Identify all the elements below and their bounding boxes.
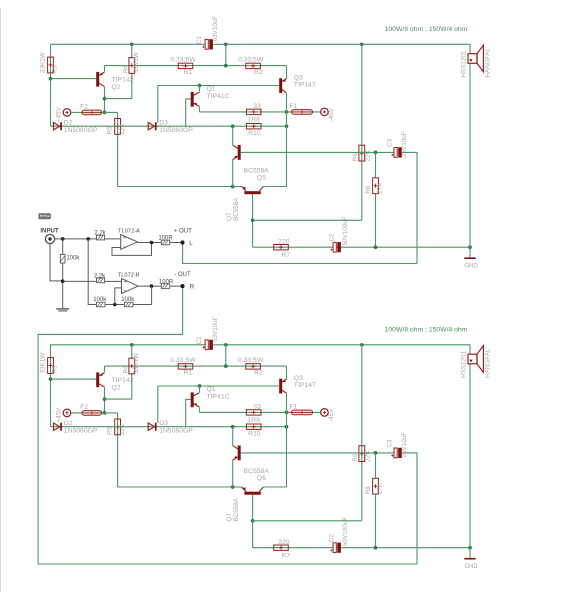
node R8 top junction L channel bbox=[374, 151, 378, 155]
wire feedback row E R channel bbox=[253, 547, 470, 549]
node Q5e-Q7 junction R channel bbox=[231, 485, 235, 489]
wire Q2 base R channel bbox=[51, 378, 97, 380]
svg-text:25V10uF: 25V10uF bbox=[401, 131, 408, 157]
svg-text:25V10uF: 25V10uF bbox=[401, 432, 408, 458]
svg-text:22K: 22K bbox=[365, 149, 372, 161]
transistor Q3 TIP147 R channel bbox=[279, 379, 282, 394]
node input junction 2 bbox=[86, 237, 90, 241]
transistor Q5 BC558A R channel bbox=[238, 446, 241, 461]
node R1-R2 junction L channel bbox=[224, 64, 228, 68]
node R3-base junction R channel bbox=[49, 377, 53, 381]
wire row B bbox=[63, 280, 122, 282]
resistor R10 L channel bbox=[246, 124, 261, 129]
node rail-C1 junction R channel bbox=[224, 343, 228, 347]
wire R5 branch R channel bbox=[117, 413, 119, 487]
node rail-R6 junction L channel bbox=[360, 42, 364, 46]
wire Q2 collector L channel bbox=[104, 66, 106, 72]
svg-text:TL072-A: TL072-A bbox=[118, 228, 140, 234]
wire Q2 collector R channel bbox=[104, 366, 106, 372]
transistor Q2 TIP142 R channel bbox=[96, 372, 99, 387]
svg-text:C3: C3 bbox=[387, 439, 394, 448]
svg-text:33K1W: 33K1W bbox=[39, 52, 46, 73]
svg-text:33K1W: 33K1W bbox=[133, 52, 140, 73]
svg-text:2.2k: 2.2k bbox=[94, 230, 106, 236]
svg-text:R5: R5 bbox=[106, 126, 113, 135]
wire Q3 top R channel bbox=[286, 366, 288, 379]
node ground junction bbox=[61, 279, 65, 283]
svg-text:+45V: +45V bbox=[55, 106, 62, 122]
transistor Q7 BC558A L channel bbox=[244, 191, 260, 194]
svg-text:R2: R2 bbox=[254, 69, 263, 76]
fuse F1 L channel bbox=[287, 111, 321, 113]
ground input GND bbox=[56, 308, 69, 310]
wire left branch R3/D2 L channel bbox=[50, 44, 52, 126]
resistor 2.2k (A) bbox=[97, 235, 105, 240]
svg-text:C1: C1 bbox=[196, 336, 203, 345]
node Q2e-F2 junction L channel bbox=[103, 111, 107, 115]
node speaker return junction L channel bbox=[468, 245, 472, 249]
diode D2 1N5060GP L channel bbox=[54, 123, 60, 130]
wire B output row bbox=[138, 285, 182, 287]
node 33-F1 junction R channel bbox=[285, 411, 289, 415]
transistor Q1 TIP41C L channel bbox=[191, 92, 194, 107]
wire Q5 collector R channel bbox=[232, 427, 234, 446]
svg-text:50V100uF: 50V100uF bbox=[342, 517, 349, 546]
svg-text:1N5060GP: 1N5060GP bbox=[64, 427, 98, 434]
resistor R4 L channel bbox=[129, 58, 135, 74]
node rail-C1 junction L channel bbox=[224, 42, 228, 46]
svg-text:100W/8 ohm ; 150W/4 ohm: 100W/8 ohm ; 150W/4 ohm bbox=[385, 26, 468, 33]
capacitor C2 L channel bbox=[333, 242, 336, 252]
svg-text:1N5060GP: 1N5060GP bbox=[159, 127, 193, 134]
terminal L bbox=[180, 240, 184, 244]
logo badge bbox=[39, 214, 51, 219]
capacitor C1 R channel bbox=[205, 340, 208, 350]
svg-text:1N5060GP: 1N5060GP bbox=[159, 427, 193, 434]
wire R5 branch L channel bbox=[117, 112, 119, 186]
svg-text:-: - bbox=[123, 243, 125, 250]
wire left branch R3/D2 R channel bbox=[50, 345, 52, 427]
wire Q5 collector L channel bbox=[232, 126, 234, 145]
svg-text:GND: GND bbox=[464, 564, 478, 570]
resistor 100k (fb) bbox=[124, 302, 133, 307]
wire Q7 base drop R channel bbox=[252, 495, 254, 548]
svg-text:R: R bbox=[190, 283, 195, 290]
resistor 100k (in) bbox=[96, 302, 105, 307]
wire R6 branch R channel bbox=[361, 345, 363, 521]
svg-text:TIP147: TIP147 bbox=[294, 82, 316, 89]
svg-text:1N5060GP: 1N5060GP bbox=[64, 127, 98, 134]
svg-text:27K: 27K bbox=[376, 182, 383, 194]
wire top supply rail L channel bbox=[51, 43, 206, 45]
op-amp U1A TL072-A bbox=[121, 234, 138, 249]
svg-text:63V10uF: 63V10uF bbox=[212, 316, 219, 342]
wire driver row C R channel bbox=[118, 486, 242, 488]
node R10 row junction R channel bbox=[285, 425, 289, 429]
svg-text:R3: R3 bbox=[52, 64, 59, 73]
wire F2 row R channel bbox=[70, 412, 117, 414]
svg-text:INPUT: INPUT bbox=[40, 228, 59, 235]
svg-text:C2: C2 bbox=[328, 533, 335, 542]
wire R6 branch L channel bbox=[361, 44, 363, 220]
svg-text:Q3: Q3 bbox=[294, 375, 303, 382]
svg-text:+45V: +45V bbox=[55, 407, 62, 423]
wire Q1 collector L channel bbox=[199, 86, 201, 92]
svg-text:0.33;5W: 0.33;5W bbox=[170, 56, 196, 63]
svg-text:HSS1201: HSS1201 bbox=[460, 351, 467, 378]
connector input jack bbox=[45, 234, 54, 243]
wire F2 row L channel bbox=[70, 111, 117, 113]
svg-text:F2: F2 bbox=[80, 104, 88, 111]
resistor R8 R channel bbox=[373, 478, 379, 494]
wire R1 R2 row L channel bbox=[105, 65, 287, 67]
wire B inverting input bbox=[115, 288, 122, 305]
wire input row B R channel bbox=[241, 452, 395, 454]
svg-text:100R: 100R bbox=[159, 279, 174, 285]
node B output junction bbox=[150, 284, 154, 288]
svg-text:Q1: Q1 bbox=[207, 386, 216, 393]
terminal R bbox=[180, 284, 184, 288]
svg-text:R7: R7 bbox=[281, 252, 290, 259]
resistor R5 R channel bbox=[115, 419, 121, 435]
svg-text:C1: C1 bbox=[196, 35, 203, 44]
fuse F1 R channel bbox=[287, 411, 321, 413]
svg-text:Q7: Q7 bbox=[226, 212, 233, 221]
capacitor C3 L channel bbox=[394, 148, 397, 158]
svg-text:D3: D3 bbox=[159, 420, 168, 427]
wire top supply rail R channel bbox=[51, 344, 206, 346]
resistor R7 220 L channel bbox=[274, 245, 289, 250]
wire Q2 emitter chain R channel bbox=[104, 387, 106, 413]
wire Q1 collector R channel bbox=[199, 386, 201, 392]
ground GND R channel bbox=[469, 548, 471, 558]
node input junction 1 bbox=[61, 237, 65, 241]
wire signal branch to inverter bbox=[88, 239, 96, 305]
capacitor C3 R channel bbox=[394, 448, 397, 458]
node R8 top junction R channel bbox=[374, 451, 378, 455]
node divider junction bbox=[113, 303, 117, 307]
wire Q2 base L channel bbox=[51, 78, 97, 80]
wire R4 top L channel bbox=[131, 44, 133, 58]
svg-text:33K1W: 33K1W bbox=[39, 353, 46, 374]
resistor R9 33 R channel bbox=[246, 410, 261, 415]
svg-text:HANGFAL: HANGFAL bbox=[485, 348, 492, 378]
svg-text:1R8: 1R8 bbox=[247, 417, 260, 424]
resistor R2 L channel bbox=[246, 63, 261, 68]
wire D2-D3 row R channel bbox=[51, 426, 287, 428]
svg-text:63V10uF: 63V10uF bbox=[212, 16, 219, 42]
svg-text:R3: R3 bbox=[52, 365, 59, 374]
wire jack ground bbox=[50, 244, 63, 281]
resistor R8 L channel bbox=[373, 178, 379, 194]
fuse F2 R channel bbox=[82, 411, 102, 416]
svg-text:22K: 22K bbox=[365, 450, 372, 462]
svg-text:Q1: Q1 bbox=[207, 86, 216, 93]
svg-text:TIP142: TIP142 bbox=[112, 377, 134, 384]
svg-text:100k: 100k bbox=[66, 256, 80, 262]
svg-text:HANGFAL: HANGFAL bbox=[485, 48, 492, 78]
wire speaker feed down R channel bbox=[469, 345, 471, 548]
node Q2e-F2 junction R channel bbox=[103, 411, 107, 415]
capacitor C2 R channel bbox=[333, 543, 336, 553]
svg-text:TL072-B: TL072-B bbox=[118, 272, 140, 278]
fuse F2 L channel bbox=[82, 110, 102, 115]
wire input row bbox=[55, 238, 121, 240]
wire R1 tap L channel bbox=[225, 44, 227, 65]
wire Q3 top L channel bbox=[286, 66, 288, 79]
supply +45V L channel bbox=[63, 109, 71, 117]
wire B feedback up bbox=[151, 286, 153, 304]
node R8 bottom junction L channel bbox=[374, 245, 378, 249]
transistor Q7 BC558A R channel bbox=[244, 492, 260, 495]
wire R1 tap R channel bbox=[225, 345, 227, 366]
svg-text:R10: R10 bbox=[248, 431, 261, 438]
wire 100k shunt branch bbox=[62, 239, 64, 309]
svg-text:R8: R8 bbox=[365, 185, 372, 194]
node Q5e-Q7 junction L channel bbox=[231, 185, 235, 189]
node R8 bottom junction R channel bbox=[374, 546, 378, 550]
resistor R3 R channel bbox=[48, 358, 54, 374]
wire D2-D3 row L channel bbox=[51, 125, 287, 127]
resistor 2.2k (B) bbox=[97, 278, 105, 283]
wire Q1 base drop L channel bbox=[186, 99, 191, 126]
wire C3 to output loop R channel bbox=[402, 453, 417, 564]
wire Q1 emitter L channel bbox=[199, 107, 201, 112]
node speaker return junction R channel bbox=[468, 546, 472, 550]
page left edge line bbox=[0, 8, 2, 592]
resistor 100k shunt bbox=[60, 254, 65, 263]
node 33-F1 junction L channel bbox=[285, 110, 289, 114]
wire 100k divider row bbox=[96, 304, 151, 306]
wire Q5 emitter L channel bbox=[232, 159, 234, 186]
svg-text:L: L bbox=[189, 240, 193, 247]
node Q5 collector junction R channel bbox=[231, 425, 235, 429]
svg-text:-45V: -45V bbox=[328, 107, 335, 121]
svg-text:R7: R7 bbox=[281, 553, 290, 560]
transistor Q5 BC558A L channel bbox=[238, 145, 241, 160]
resistor R10 R channel bbox=[246, 424, 261, 429]
wire R8 leads L channel bbox=[375, 152, 377, 177]
wire R4 bottom L channel bbox=[105, 73, 132, 99]
diode D3 1N5060GP R channel bbox=[148, 423, 154, 430]
svg-text:F1: F1 bbox=[290, 404, 298, 411]
svg-text:33K1W: 33K1W bbox=[133, 353, 140, 374]
node Q2e-R4 junction R channel bbox=[103, 397, 107, 401]
wire R-input border R channel bbox=[38, 288, 417, 564]
wire 33 row L channel bbox=[200, 111, 287, 113]
svg-text:Q7: Q7 bbox=[226, 513, 233, 522]
resistor R1 R channel bbox=[178, 364, 193, 369]
wire A feedback bbox=[112, 243, 152, 256]
svg-text:R6: R6 bbox=[352, 453, 359, 462]
node Q7 base-R6 junction R channel bbox=[251, 519, 255, 523]
svg-text:R1: R1 bbox=[183, 69, 192, 76]
svg-text:GND: GND bbox=[464, 264, 478, 270]
resistor R5 L channel bbox=[115, 119, 121, 135]
wire R8 leads R channel bbox=[375, 453, 377, 478]
node rail-R4 junction L channel bbox=[130, 42, 134, 46]
wire D3 cathode to bias row R channel bbox=[157, 386, 159, 423]
wire Q1 base drop R channel bbox=[186, 399, 191, 426]
svg-text:D3: D3 bbox=[159, 119, 168, 126]
svg-text:R1: R1 bbox=[183, 369, 192, 376]
svg-text:D2: D2 bbox=[64, 119, 73, 126]
svg-text:33: 33 bbox=[253, 103, 261, 110]
svg-text:100R: 100R bbox=[158, 236, 173, 242]
wire speaker feed down L channel bbox=[469, 44, 471, 247]
node R10 row junction L channel bbox=[285, 124, 289, 128]
wire Q1-Q3 base row L channel bbox=[158, 85, 279, 87]
node A output junction bbox=[150, 241, 154, 245]
svg-text:-45V: -45V bbox=[328, 408, 335, 422]
wire Q7 base drop L channel bbox=[252, 194, 254, 247]
svg-text:TIP142: TIP142 bbox=[112, 77, 134, 84]
wire Q5 emitter R channel bbox=[232, 460, 234, 487]
wire Q2 emitter chain L channel bbox=[104, 87, 106, 113]
wire 33 row R channel bbox=[200, 411, 287, 413]
node Q1 collector junction L channel bbox=[198, 84, 202, 88]
node Q5 collector junction L channel bbox=[231, 124, 235, 128]
wire input row B L channel bbox=[241, 151, 395, 153]
wire Q3 bottom to driver row L channel bbox=[286, 93, 288, 187]
svg-text:R4: R4 bbox=[123, 365, 130, 374]
resistor R3 L channel bbox=[48, 57, 54, 73]
svg-text:2.2k: 2.2k bbox=[94, 273, 106, 279]
supply -45V R channel bbox=[321, 409, 329, 417]
svg-text:+: + bbox=[124, 280, 127, 286]
resistor R2 R channel bbox=[246, 364, 261, 369]
speaker HSS1201 HANGFAL R channel bbox=[468, 354, 477, 364]
svg-text:TIP147: TIP147 bbox=[294, 382, 316, 389]
wire R1 R2 row R channel bbox=[105, 365, 287, 367]
capacitor C1 L channel bbox=[205, 39, 208, 49]
svg-text:0.33;5W: 0.33;5W bbox=[238, 357, 264, 364]
svg-text:R6: R6 bbox=[352, 153, 359, 162]
svg-text:0.33;5W: 0.33;5W bbox=[170, 357, 196, 364]
svg-text:220: 220 bbox=[278, 238, 290, 245]
node rail-R6 junction R channel bbox=[360, 343, 364, 347]
resistor R6 R channel bbox=[359, 446, 365, 462]
ground GND L channel bbox=[469, 247, 471, 257]
wire C3 to output loop L channel bbox=[402, 152, 417, 263]
wire Q1-Q3 base row R channel bbox=[158, 385, 279, 387]
resistor 100R (B) bbox=[161, 284, 169, 289]
wire D3 cathode to bias row L channel bbox=[157, 86, 159, 123]
svg-text:Q5: Q5 bbox=[257, 175, 266, 182]
svg-text:BC558A: BC558A bbox=[233, 197, 240, 221]
supply -45V L channel bbox=[321, 108, 329, 116]
svg-text:1R8: 1R8 bbox=[247, 116, 260, 123]
svg-text:R5: R5 bbox=[106, 426, 113, 435]
svg-text:F1: F1 bbox=[290, 103, 298, 110]
svg-text:22K: 22K bbox=[119, 423, 126, 435]
wire R4 bottom R channel bbox=[105, 373, 132, 399]
svg-text:100k: 100k bbox=[121, 297, 135, 303]
svg-text:Q2: Q2 bbox=[112, 384, 121, 391]
svg-text:R10: R10 bbox=[248, 130, 261, 137]
resistor R6 L channel bbox=[359, 145, 365, 161]
node R1-R2 junction R channel bbox=[224, 364, 228, 368]
svg-text:100k: 100k bbox=[93, 297, 107, 303]
svg-text:+: + bbox=[123, 236, 126, 242]
svg-text:100W/8 ohm ; 150W/4 ohm: 100W/8 ohm ; 150W/4 ohm bbox=[385, 327, 468, 334]
wire R4 top R channel bbox=[131, 345, 133, 359]
speaker HSS1201 HANGFAL L channel bbox=[468, 54, 477, 64]
svg-text:27K: 27K bbox=[376, 482, 383, 494]
svg-text:Q2: Q2 bbox=[112, 84, 121, 91]
svg-text:R2: R2 bbox=[254, 369, 263, 376]
resistor R9 33 L channel bbox=[246, 109, 261, 114]
svg-text:R8: R8 bbox=[365, 486, 372, 495]
svg-text:BC558A: BC558A bbox=[244, 468, 270, 475]
svg-text:HSS1201: HSS1201 bbox=[460, 50, 467, 77]
svg-text:- OUT: - OUT bbox=[174, 272, 191, 278]
svg-text:TIP41C: TIP41C bbox=[207, 93, 230, 100]
svg-text:-: - bbox=[124, 287, 126, 294]
svg-text:R4: R4 bbox=[123, 64, 130, 73]
wire driver row C L channel bbox=[118, 186, 242, 188]
wire Q3 bottom to driver row R channel bbox=[286, 393, 288, 487]
wire A output row bbox=[137, 242, 182, 244]
resistor 100R (A) bbox=[161, 240, 169, 245]
diode D3 1N5060GP L channel bbox=[148, 123, 154, 130]
transistor Q1 TIP41C R channel bbox=[191, 392, 194, 407]
svg-text:220: 220 bbox=[278, 539, 290, 546]
transistor Q2 TIP142 L channel bbox=[96, 72, 99, 87]
node R3-base junction L channel bbox=[49, 77, 53, 81]
svg-text:+ OUT: + OUT bbox=[174, 229, 192, 235]
node Q2e-R4 junction L channel bbox=[103, 97, 107, 101]
svg-text:50V100uF: 50V100uF bbox=[342, 216, 349, 245]
wire Q1 emitter R channel bbox=[199, 408, 201, 413]
svg-text:D2: D2 bbox=[64, 420, 73, 427]
resistor R1 L channel bbox=[178, 63, 193, 68]
wire feedback row E L channel bbox=[253, 246, 470, 248]
svg-text:33: 33 bbox=[253, 403, 261, 410]
supply +45V R channel bbox=[63, 409, 71, 417]
svg-text:Q5: Q5 bbox=[257, 475, 266, 482]
wire output loop from L L channel bbox=[183, 244, 417, 264]
svg-text:BC558A: BC558A bbox=[233, 497, 240, 521]
resistor R4 R channel bbox=[129, 358, 135, 374]
svg-text:0.33;5W: 0.33;5W bbox=[238, 56, 264, 63]
node Q7 base-R6 junction L channel bbox=[251, 218, 255, 222]
svg-text:F2: F2 bbox=[80, 404, 88, 411]
transistor Q3 TIP147 L channel bbox=[279, 78, 282, 93]
svg-text:C3: C3 bbox=[387, 138, 394, 147]
resistor R7 220 R channel bbox=[274, 545, 289, 550]
diode D2 1N5060GP R channel bbox=[54, 423, 60, 430]
svg-text:TIP41C: TIP41C bbox=[207, 393, 230, 400]
op-amp U1B TL072-B bbox=[122, 279, 139, 294]
node Q1 collector junction R channel bbox=[198, 384, 202, 388]
svg-text:BC558A: BC558A bbox=[244, 167, 270, 174]
svg-text:C2: C2 bbox=[328, 233, 335, 242]
node rail-R4 junction R channel bbox=[130, 343, 134, 347]
svg-text:22K: 22K bbox=[119, 122, 126, 134]
svg-text:Q3: Q3 bbox=[294, 74, 303, 81]
